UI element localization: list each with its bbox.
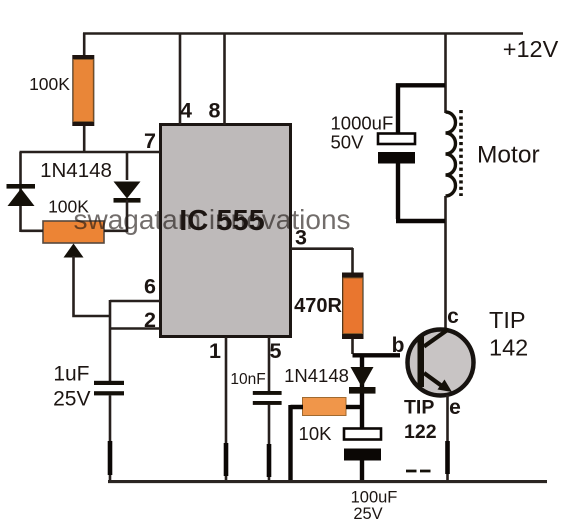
capacitor C2 10nF [253,391,282,405]
junction tick C1 [108,441,113,475]
wire C4 branch bottom [396,163,445,221]
svg-text:122: 122 [404,421,437,443]
wire pin 2 stub [110,327,160,330]
motor inductor coil [446,112,456,196]
wire pin 6 stub [110,300,160,303]
svg-text:2: 2 [144,308,156,332]
wire C3 to rail [360,460,364,481]
svg-text:5: 5 [270,339,282,363]
svg-text:10nF: 10nF [230,371,265,388]
wire ground rail [108,480,547,483]
wire pin 4 [179,33,182,125]
junction tick pin5 [267,444,272,477]
transistor Q1 TIP122 circle [408,330,474,396]
svg-text:100K: 100K [29,74,70,94]
svg-text:100K: 100K [48,197,89,217]
diode D3 1N4148 (cathode down) [349,367,376,394]
wire pin 8 [223,33,226,125]
wire left branch down to D1 [19,152,22,232]
wire R3 left lead down to rail [291,405,304,481]
wire coil bottom to collector [444,196,447,330]
svg-text:25V: 25V [53,388,90,411]
wire pin 7 horizontal net [20,151,161,154]
capacitor C3 100uF 25V [344,429,381,461]
svg-text:TIP: TIP [489,307,526,333]
capacitor C4 1000uF 50V [378,134,415,164]
svg-text:7: 7 [144,129,156,153]
wire +12V top rail [83,32,523,35]
svg-text:1uF: 1uF [53,363,89,386]
dashed mark near emitter [406,470,431,473]
svg-text:Motor: Motor [477,142,540,169]
svg-text:c: c [447,305,459,328]
svg-text:10K: 10K [299,423,333,444]
capacitor C1 1uF 25V [94,381,124,396]
wire main +12V drop to motor [444,33,447,113]
pot wiper arrow [64,244,111,317]
resistor R2 470R [342,273,364,340]
junction tick emitter [445,441,450,474]
svg-text:142: 142 [489,335,528,361]
svg-text:TIP: TIP [404,397,434,419]
wire pin 5 down to C2 [268,337,271,391]
diode D2 1N4148 (cathode down) [114,152,141,232]
resistor R3 10K [303,398,347,416]
wire base thick segment [353,353,401,357]
wire R1 bottom to pin7 net [83,126,86,152]
wire pot right lead to D2 [104,230,127,233]
svg-text:25V: 25V [353,505,382,523]
svg-text:3: 3 [295,226,307,250]
svg-text:50V: 50V [331,132,365,153]
svg-text:e: e [449,396,461,419]
Q1 collector stroke [424,330,448,347]
svg-text:1000uF: 1000uF [331,113,394,134]
svg-text:1N4148: 1N4148 [284,365,349,386]
wire C4 branch top [396,83,445,134]
wire R2 bottom to base [351,339,354,354]
wire C1 to ground rail [109,395,112,481]
diode D1 1N4148 (cathode up) [7,184,36,206]
svg-text:470R: 470R [294,295,342,317]
svg-text:b: b [392,334,405,357]
resistor R1 100K [72,55,94,126]
wire C2 to rail [268,405,271,482]
Q1 emitter stroke with arrow [424,373,444,388]
svg-text:IC 555: IC 555 [179,205,264,237]
wire top rail to R1 [83,33,86,56]
svg-text:8: 8 [209,99,221,123]
op-amp U1 IC 555 body [161,125,291,337]
svg-text:4: 4 [180,99,192,123]
wire pin 1 down to rail [225,337,228,481]
svg-text:6: 6 [144,275,156,299]
wire pins 6-2 junction down to C1 [109,300,112,381]
potentiometer body 100K [43,221,104,243]
motor core dotted line [459,110,463,196]
wire pin 3 stub [291,247,353,250]
wire emitter down to rail [446,395,449,481]
junction tick pin1 [224,443,229,476]
Q1 base bar [418,337,425,388]
svg-text:100uF: 100uF [351,489,398,507]
wire pin3 corner down to R2 [351,248,354,273]
svg-text:1: 1 [209,339,221,363]
wire R3 right lead [346,405,362,409]
wire D3 branch vertical [360,355,364,429]
svg-text:1N4148: 1N4148 [40,159,112,182]
svg-text:+12V: +12V [503,36,559,62]
wire D1 to pot left lead [21,230,44,233]
